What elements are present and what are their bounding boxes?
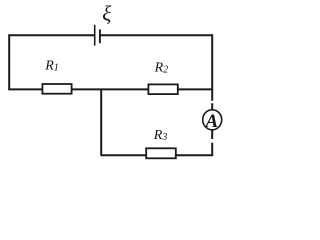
wire middle horizontal (R2 to right rail) bbox=[178, 88, 213, 90]
wire bottom horizontal (junction to R3) bbox=[100, 154, 146, 156]
wire right vertical (ammeter to bottom) bbox=[211, 129, 213, 156]
resistor R2 bbox=[148, 84, 177, 94]
resistor R1 bbox=[42, 84, 71, 94]
svg-text:A: A bbox=[205, 111, 219, 132]
wire middle horizontal (R1 to R2) bbox=[71, 88, 148, 90]
ammeter A bbox=[203, 110, 222, 130]
wire middle horizontal (left of R1) bbox=[8, 88, 42, 90]
svg-text:R2: R2 bbox=[154, 61, 169, 76]
svg-text:R3: R3 bbox=[153, 128, 168, 143]
wire top-right horizontal bbox=[100, 34, 213, 36]
wire middle vertical (junction to bottom) bbox=[100, 89, 102, 155]
wire bottom horizontal (R3 to right rail) bbox=[176, 154, 214, 156]
wire left vertical bbox=[8, 34, 10, 90]
wire top-left horizontal bbox=[8, 34, 94, 36]
battery (EMF source) long plate bbox=[94, 25, 96, 46]
battery (EMF source) short plate bbox=[99, 29, 101, 43]
svg-text:R1: R1 bbox=[44, 59, 59, 74]
svg-text:ξ: ξ bbox=[102, 2, 111, 26]
wire right vertical (top to ammeter) bbox=[211, 34, 213, 110]
resistor R3 bbox=[146, 148, 176, 158]
